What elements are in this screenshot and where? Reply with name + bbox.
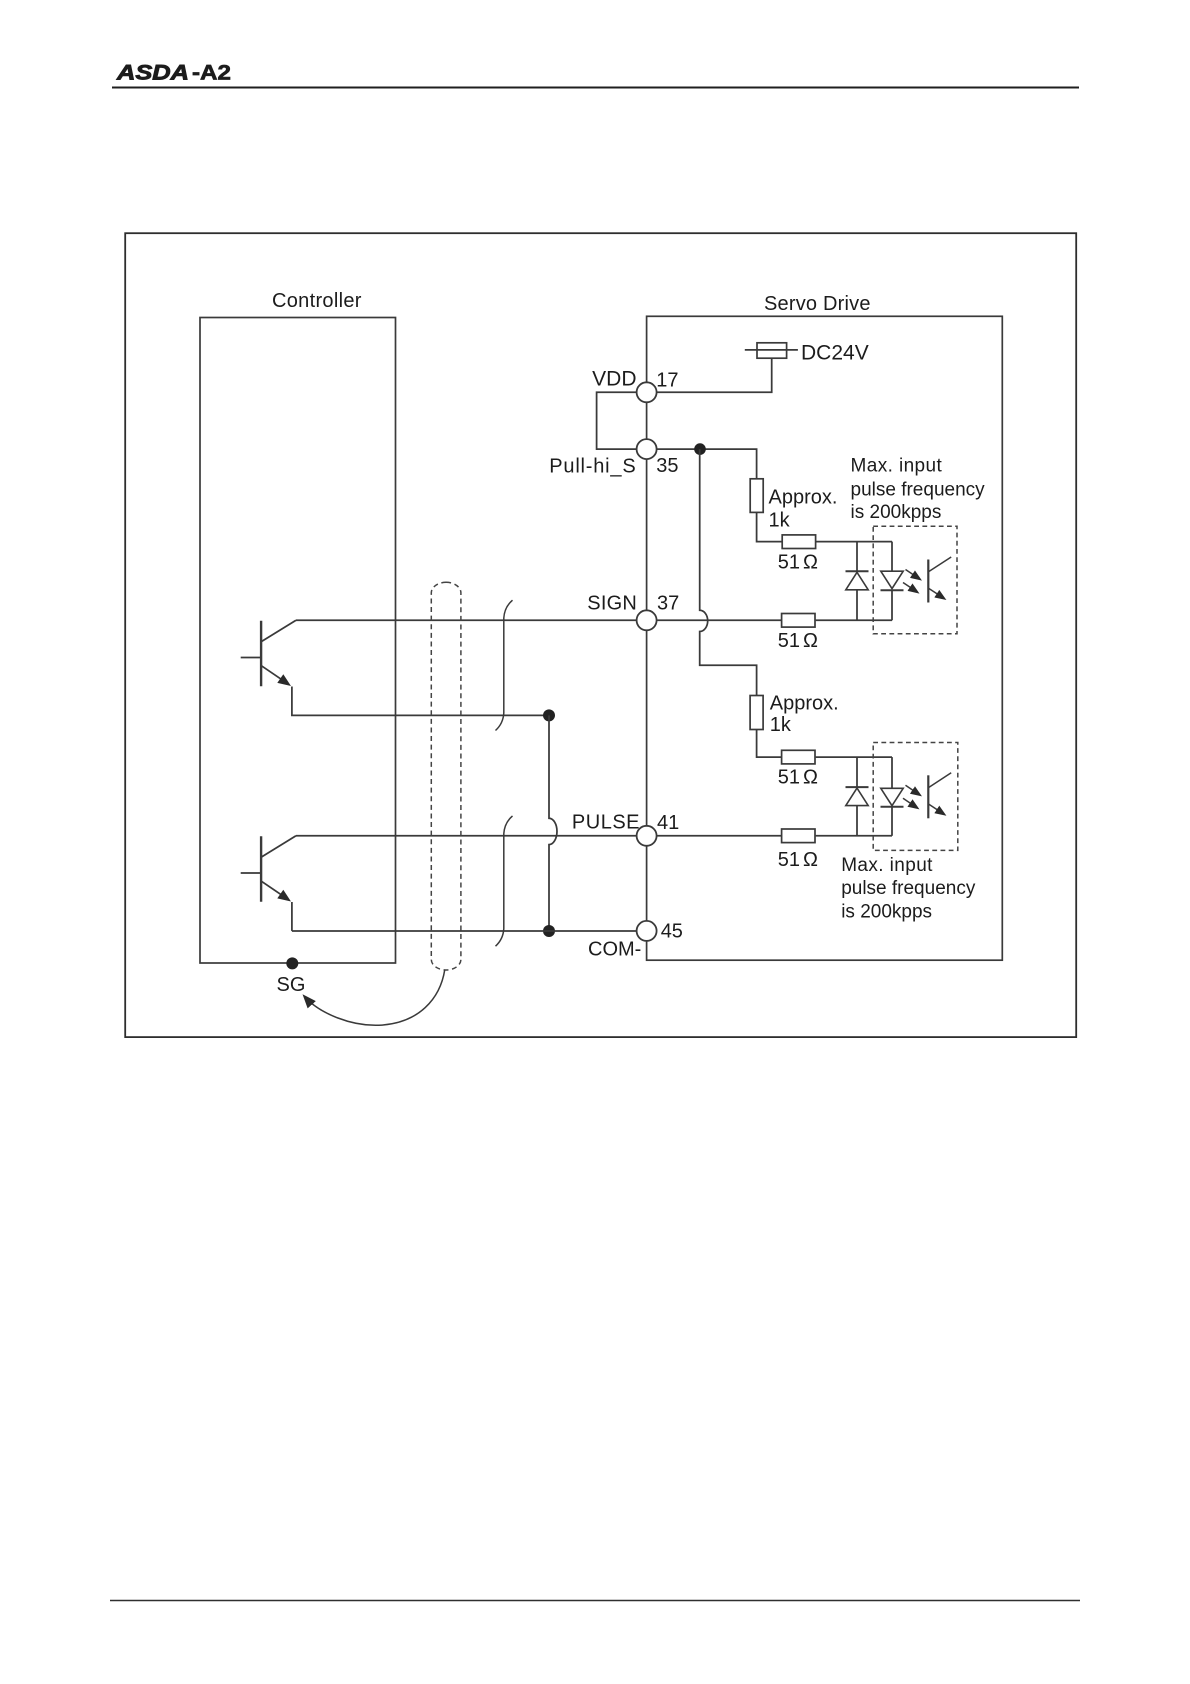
wire branch drop D4 [891,757,893,788]
fuse F1 [745,343,798,358]
ASDA-A2 logo [116,61,231,85]
label max input lower [841,855,976,922]
pin 45 [637,921,657,941]
diode D1 [846,571,869,620]
wire PULSE pin41 to R6 [657,835,782,837]
wire R6 to diode bottoms [816,835,892,837]
svg-text:VDD: VDD [592,368,636,391]
wire R2 to diode branch top [816,541,892,543]
optocoupler U1 dashed box [873,526,957,634]
phototransistor U1 [903,557,951,603]
svg-text:51Ω: 51Ω [778,766,818,788]
svg-text:pulse frequency: pulse frequency [841,878,976,899]
diode D2 [881,571,904,620]
optocoupler U2 dashed box [873,743,958,851]
svg-text:Approx.: Approx. [770,692,839,714]
svg-text:-A2: -A2 [192,61,231,85]
svg-text:17: 17 [656,370,678,392]
node SG dot [286,957,298,969]
node junction pull-hi [694,443,706,455]
svg-text:Servo Drive: Servo Drive [764,293,871,315]
resistor R1 approx 1k [750,479,763,513]
wire Q2 emitter down to COM- [291,902,293,931]
twisted pair mark lower [496,816,513,946]
controller box [200,318,396,964]
resistor R3 51ohm [782,614,815,628]
svg-text:is 200kpps: is 200kpps [841,901,932,922]
wire R5 to diode branch top [816,756,892,758]
svg-text:SG: SG [277,974,306,996]
svg-text:SIGN: SIGN [587,593,637,615]
svg-text:1k: 1k [769,509,791,531]
svg-text:1k: 1k [770,714,792,736]
svg-text:ASDA: ASDA [116,61,189,85]
wire pin17 to fuse [657,358,772,392]
node A [543,709,555,721]
svg-text:pulse frequency: pulse frequency [851,479,986,500]
svg-text:35: 35 [656,455,678,477]
cable shield [431,582,461,970]
svg-text:DC24V: DC24V [801,342,869,365]
phototransistor U2 [903,773,951,819]
svg-text:Max. input: Max. input [851,456,943,477]
arrow shield to SG [305,970,445,1026]
resistor R5 51ohm [782,750,815,764]
wire R1 to R2 [757,512,783,541]
pin 41 [637,826,657,846]
label max input upper [851,456,986,523]
svg-text:51Ω: 51Ω [778,630,818,652]
resistor R2 51ohm [782,535,815,549]
svg-text:51Ω: 51Ω [778,849,818,871]
twisted pair mark upper [496,600,513,730]
servo drive box [647,316,1003,960]
transistor Q1 [241,620,296,686]
wire branch drop D3 [856,757,858,787]
pin 35 [637,439,657,459]
wire branch drop D2 [891,542,893,572]
wire R4 to R5 [757,730,782,758]
svg-text:Approx.: Approx. [769,487,838,509]
wire pull-hi junction down to R4 with hop over SIGN [700,449,757,695]
svg-text:51Ω: 51Ω [778,552,818,574]
svg-text:37: 37 [657,593,679,615]
transistor Q2 [241,836,296,902]
label Approx. 1k lower [770,692,839,735]
label Approx. 1k upper [769,487,838,532]
svg-text:41: 41 [657,812,679,834]
diode D4 [881,788,904,836]
node B [543,925,555,937]
wire branch drop D1 [856,542,858,572]
diode D3 [846,787,869,836]
wire SIGN controller to pin37 [296,619,637,621]
wire pin35 to R1 [657,449,757,479]
wire R3 to diode bottoms [816,619,892,621]
pin 17 [637,382,657,402]
svg-text:Max. input: Max. input [841,855,933,876]
wire node A to node B with hop over PULSE [549,715,557,931]
resistor R4 approx 1k [750,696,763,730]
svg-text:is 200kpps: is 200kpps [851,502,942,523]
svg-text:COM-: COM- [588,939,641,961]
pin 37 [637,610,657,630]
wire Q1 emitter down and right to node A [292,687,549,716]
wire SIGN pin37 to R3 [657,619,782,621]
svg-text:PULSE: PULSE [572,812,640,834]
resistor R6 51ohm [782,829,815,843]
svg-text:45: 45 [661,921,683,943]
wire COM- controller to pin45 [292,930,637,932]
wire PULSE controller to pin41 [296,835,637,837]
wire VDD loop pin17-pin35 [597,392,637,449]
svg-text:Controller: Controller [272,290,362,312]
svg-text:Pull-hi_S: Pull-hi_S [549,455,636,477]
